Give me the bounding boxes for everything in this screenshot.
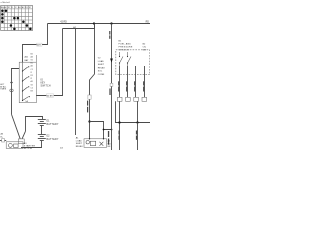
svg-text:MOTOR: MOTOR — [24, 148, 33, 150]
HOT AT ALL TIMES text — [0, 84, 7, 90]
relay A1 text — [76, 137, 84, 148]
svg-text:LOAD: LOAD — [98, 60, 104, 63]
relay pin 1 — [89, 138, 90, 139]
relay box — [84, 139, 107, 148]
junction dot on bus — [110, 22, 112, 24]
wire drop to ignition switch output — [36, 29, 62, 96]
svg-text:BATTERY: BATTERY — [47, 123, 59, 126]
svg-text:RD: RD — [146, 22, 150, 24]
junction dot at relay feed — [88, 120, 90, 122]
junction dot on bus2 — [118, 121, 120, 123]
left connector box — [2, 139, 5, 142]
svg-text:C1: C1 — [31, 69, 33, 71]
junction dot at solenoid drop — [111, 129, 113, 131]
sensor output wire 4 — [144, 66, 146, 101]
sub-bus wire — [63, 24, 95, 29]
IG KEY SWITCH label — [41, 79, 51, 87]
svg-text:STARTER: STARTER — [24, 145, 36, 148]
svg-text:TIMES: TIMES — [0, 89, 7, 91]
junction dot on bus2 — [136, 121, 138, 123]
starter motor circle — [9, 144, 13, 148]
connector oval on left wire — [10, 89, 13, 92]
fuel pressure sensor text — [119, 41, 133, 52]
arrowhead terminator — [110, 59, 113, 63]
vertical wire label — [87, 101, 88, 113]
sensor switch 1 — [120, 52, 124, 66]
svg-text:PRESSURE: PRESSURE — [119, 47, 133, 49]
battery ground wire — [21, 141, 42, 148]
junction dot at relay stub — [103, 129, 105, 131]
relay pin 2 — [103, 138, 104, 139]
svg-text:A1: A1 — [31, 80, 33, 83]
stub into relay second terminal — [103, 130, 105, 139]
svg-text:A2: A2 — [31, 65, 33, 68]
svg-text:I2: I2 — [31, 78, 33, 80]
inline connector on drop wire — [110, 83, 113, 86]
inline connector on relay wire — [88, 95, 91, 99]
wire label 42 OR — [119, 131, 120, 140]
svg-text:42 RD: 42 RD — [60, 22, 67, 24]
starter label — [24, 142, 36, 150]
svg-text:SHIFT: SHIFT — [98, 64, 105, 66]
sensor switch 2 — [128, 52, 132, 66]
wire label box 42 BR — [47, 94, 54, 97]
svg-text:I1: I1 — [31, 72, 33, 74]
relay inner box — [90, 141, 95, 145]
relay coil circle — [86, 141, 89, 144]
box right edge stub — [35, 55, 37, 62]
main power bus wire — [48, 23, 151, 25]
connector tick on left wire — [10, 82, 12, 83]
junction dot on bus — [93, 22, 95, 24]
svg-text:A4: A4 — [31, 55, 33, 58]
starter motor box — [6, 142, 23, 149]
svg-text:FUEL AND: FUEL AND — [119, 43, 132, 46]
sensor dashed box — [116, 50, 150, 75]
svg-text:C2: C2 — [31, 87, 33, 89]
sensor output wire 1 — [119, 66, 121, 150]
relay right text — [108, 141, 112, 149]
svg-text:RD: RD — [108, 143, 112, 145]
sensor output wire 3 — [135, 66, 137, 101]
starter inner box — [14, 144, 19, 148]
svg-text:S2: S2 — [31, 84, 33, 86]
svg-text:S1: S1 — [31, 60, 33, 62]
svg-text:42R: 42R — [37, 45, 41, 47]
svg-text:SOL: SOL — [98, 71, 103, 73]
left feed wire — [0, 140, 6, 142]
svg-text:IG: IG — [41, 79, 44, 81]
battery D2 — [38, 135, 46, 141]
vertical wire label — [109, 31, 110, 39]
starter connector box — [18, 139, 24, 144]
wire drop from bus dot to relay — [90, 24, 95, 139]
svg-text:CONN: CONN — [98, 74, 105, 76]
svg-text:KEY: KEY — [41, 82, 46, 84]
wire label 42 BK — [143, 81, 144, 91]
wire from bus to ignition switch — [23, 24, 48, 63]
splice bus2 — [116, 101, 151, 122]
vertical wire label — [108, 131, 109, 145]
switch terminal labels — [31, 53, 33, 92]
svg-text:B1: B1 — [31, 63, 33, 65]
svg-text:B3: B3 — [31, 91, 33, 93]
diagonal battery cable into starter — [22, 131, 26, 140]
vertical wire label — [109, 89, 110, 96]
svg-text:BATTERY: BATTERY — [47, 138, 59, 141]
svg-text:SHIFT: SHIFT — [76, 143, 83, 145]
wire from junction to solenoid drop — [90, 122, 112, 130]
svg-text:LOAD: LOAD — [76, 139, 82, 142]
switch contacts — [23, 67, 29, 101]
switch internal bus — [22, 62, 24, 101]
svg-text:SWITCH: SWITCH — [41, 86, 51, 88]
wire label 42 GN — [126, 81, 127, 91]
wire drop x=111.5 with arrow end — [111, 24, 113, 151]
ignition switch box — [19, 62, 36, 102]
wire drop x=76 — [75, 29, 77, 136]
stub up from dot2 — [137, 101, 139, 122]
svg-text:42 BR: 42 BR — [47, 96, 53, 98]
diagonal wire into starter — [12, 114, 21, 139]
left battery feed wire — [12, 69, 20, 115]
wire down from bus2 dot2 — [137, 123, 139, 151]
svg-text:R1: R1 — [31, 75, 33, 77]
svg-text:B2: B2 — [31, 53, 33, 55]
svg-text:RELAY: RELAY — [76, 145, 84, 148]
wire label box 42 RD — [37, 43, 42, 46]
sensor output wire 2 — [127, 66, 129, 101]
V2 solenoid text block — [98, 58, 106, 77]
ignition switch continuity table grid — [1, 6, 33, 31]
wire label 42 BU — [118, 81, 119, 91]
svg-text:RELAY: RELAY — [98, 66, 106, 69]
table continuity dots — [1, 9, 32, 30]
wire label 42 YL — [134, 81, 135, 91]
battery link wire — [41, 126, 43, 135]
relay contact — [100, 142, 104, 146]
battery cable wire — [26, 117, 43, 132]
svg-text:a Mitchell: a Mitchell — [1, 1, 11, 4]
table header labels — [1, 6, 32, 9]
wire label 42 BK — [136, 131, 137, 140]
connector boxes row — [117, 97, 146, 101]
battery D1 — [38, 120, 46, 126]
